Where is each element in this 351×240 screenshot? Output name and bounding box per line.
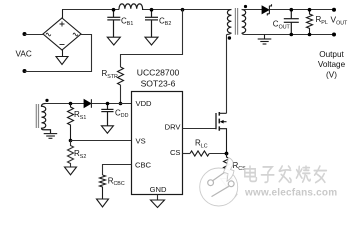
wire drain vertical bbox=[226, 35, 228, 114]
bridge minus mark bbox=[60, 44, 65, 46]
watermark text chinese (vector glyphs) bbox=[245, 166, 327, 182]
transistor Q1 body arrow bbox=[220, 120, 224, 124]
transformer T1 primary winding bbox=[227, 10, 231, 34]
ground CB1 bbox=[107, 37, 120, 45]
glyph shao bbox=[296, 166, 310, 182]
svg-text:UCC28700: UCC28700 bbox=[137, 68, 180, 78]
ground earth aux bbox=[44, 134, 58, 139]
capacitor COUT bbox=[284, 10, 299, 35]
op-amp U1 UCC28700 box bbox=[132, 92, 183, 195]
glyph you bbox=[314, 166, 326, 182]
wire CS bbox=[183, 153, 191, 155]
svg-text:Output: Output bbox=[319, 50, 344, 59]
wire RLC to CS node bbox=[209, 153, 226, 155]
svg-text:CS: CS bbox=[170, 148, 181, 157]
wire diode to vout bbox=[269, 9, 334, 11]
svg-text:RSTR: RSTR bbox=[102, 69, 119, 80]
node CB2 top bbox=[150, 8, 154, 12]
diode D2 aux bbox=[84, 99, 91, 108]
capacitor CB1 bbox=[107, 10, 120, 38]
wire RSTR bottom bbox=[120, 85, 122, 104]
ground RCBC bbox=[97, 199, 109, 207]
watermark logo small circle left bbox=[208, 180, 214, 186]
inductor LF bbox=[119, 4, 143, 10]
node VOUT top terminal bbox=[332, 8, 336, 12]
transistor Q1 MOSFET bbox=[216, 112, 227, 154]
resistor RS1 bbox=[68, 104, 74, 141]
node COUT top bbox=[290, 8, 294, 12]
node CDD top bbox=[106, 102, 110, 106]
wire VS bbox=[71, 140, 132, 142]
wire RSTR feed bbox=[121, 10, 183, 68]
node RSTR-VDD junction bbox=[119, 102, 123, 106]
svg-text:GND: GND bbox=[150, 185, 167, 194]
svg-text:SOT23-6: SOT23-6 bbox=[141, 79, 176, 89]
svg-text:CBC: CBC bbox=[135, 160, 152, 169]
node RSTR tap bbox=[181, 8, 185, 12]
ground U1 GND bbox=[151, 200, 165, 208]
node COUT bottom bbox=[290, 33, 294, 37]
aux winding LA bbox=[42, 104, 51, 134]
bridge rectifier BR1 bbox=[43, 10, 81, 57]
resistor RCS bbox=[224, 154, 230, 179]
glyph dian bbox=[245, 166, 257, 181]
node RS1 top junction bbox=[69, 102, 73, 106]
node VAC bottom terminal bbox=[23, 69, 27, 73]
watermark logo slash lines bbox=[212, 172, 229, 197]
svg-text:www.elecfans.com: www.elecfans.com bbox=[244, 188, 337, 199]
svg-text:RCBC: RCBC bbox=[108, 176, 125, 187]
watermark logo arrow hook bbox=[224, 158, 235, 182]
bridge ac tilde left bbox=[46, 33, 51, 36]
wire VAC bottom bbox=[25, 35, 92, 72]
bridge ac tilde right bbox=[73, 33, 78, 36]
resistor RPL bbox=[307, 10, 313, 35]
capacitor CB2 bbox=[145, 10, 158, 38]
resistor RS2 bbox=[68, 141, 74, 168]
wire secondary bottom rail bbox=[242, 33, 334, 34]
node RPL top bbox=[308, 8, 312, 12]
wire top rail left bbox=[62, 9, 119, 11]
svg-text:VS: VS bbox=[136, 136, 146, 145]
resistor RLC bbox=[190, 151, 209, 156]
bridge plus mark bbox=[60, 22, 65, 27]
watermark logo circle bbox=[200, 158, 238, 207]
node aux phase dot bbox=[45, 99, 48, 102]
ground CDD bbox=[101, 126, 113, 133]
svg-text:CDD: CDD bbox=[115, 108, 129, 119]
node CS junction bbox=[225, 152, 229, 156]
wire DRV to gate bbox=[183, 128, 217, 130]
node primary phase dot bbox=[228, 36, 231, 39]
ground earth secondary bbox=[258, 35, 272, 45]
node RPL bottom bbox=[308, 33, 312, 37]
glyph fa bbox=[279, 166, 291, 182]
svg-text:VOUT: VOUT bbox=[331, 15, 349, 27]
resistor RSTR bbox=[118, 67, 124, 85]
diode D1 output schottky bbox=[262, 4, 272, 15]
svg-text:VDD: VDD bbox=[136, 99, 153, 108]
svg-text:CB1: CB1 bbox=[121, 16, 133, 27]
capacitor CDD bbox=[101, 104, 113, 126]
svg-text:DRV: DRV bbox=[165, 123, 182, 132]
svg-text:RS1: RS1 bbox=[74, 110, 86, 121]
svg-text:(V): (V) bbox=[326, 70, 337, 79]
svg-text:Voltage: Voltage bbox=[318, 60, 346, 69]
svg-text:VAC: VAC bbox=[16, 50, 32, 59]
svg-text:RLC: RLC bbox=[195, 139, 208, 150]
aux winding core bbox=[36, 104, 38, 128]
transformer T1 core bbox=[235, 8, 237, 35]
node secondary phase dot bbox=[244, 5, 247, 8]
watermark logo small circle right bbox=[228, 181, 234, 187]
ground bridge bbox=[56, 57, 68, 65]
resistor RCBC bbox=[100, 175, 106, 199]
wire GND stub bbox=[157, 195, 159, 201]
wire secondary top to diode bbox=[242, 9, 263, 11]
node CB1 top bbox=[112, 8, 116, 12]
wire VDD net bbox=[46, 103, 85, 105]
wire diode to VDD pin bbox=[92, 103, 132, 105]
node VS junction bbox=[69, 139, 73, 143]
svg-text:RS2: RS2 bbox=[74, 149, 86, 160]
ground RS2 bbox=[65, 167, 77, 175]
glyph zi bbox=[261, 167, 273, 182]
ground RCS bbox=[221, 179, 233, 187]
wire CBC bbox=[103, 165, 132, 176]
svg-text:CB2: CB2 bbox=[159, 16, 171, 27]
wire top rail mid bbox=[143, 9, 232, 11]
svg-text:RPL: RPL bbox=[316, 15, 328, 26]
svg-text:COUT: COUT bbox=[273, 20, 291, 31]
wire VAC top bbox=[25, 34, 44, 36]
node VAC top terminal bbox=[23, 32, 27, 36]
transformer T1 secondary winding bbox=[242, 10, 246, 34]
node VOUT bottom terminal bbox=[332, 33, 336, 37]
ground CB2 bbox=[145, 37, 158, 45]
wire primary bottom bbox=[227, 33, 232, 34]
